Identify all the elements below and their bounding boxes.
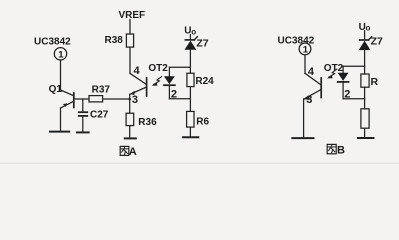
svg-text:B: B bbox=[337, 145, 345, 157]
wire pin1 down to OT2 pin4 bbox=[304, 55, 306, 73]
capacitor C27 bbox=[79, 99, 109, 132]
svg-text:R38: R38 bbox=[105, 35, 124, 46]
ground (R6) bbox=[183, 136, 198, 138]
OT2 label bbox=[324, 63, 344, 74]
output label Uo bbox=[359, 22, 371, 33]
svg-text:VREF: VREF bbox=[119, 10, 146, 21]
pin 4 label bbox=[134, 65, 141, 77]
wire R24 to R6 bbox=[189, 87, 191, 112]
optocoupler OT2 phototransistor bbox=[130, 73, 147, 99]
wire Z7 to R bbox=[364, 50, 366, 74]
light arrow bbox=[327, 69, 337, 78]
OT2 label bbox=[148, 63, 168, 74]
optocoupler OT2 LED bbox=[164, 67, 175, 99]
transistor Q1 bbox=[61, 90, 74, 108]
wire LED anode to Z7 node bbox=[169, 66, 190, 68]
node junction bbox=[128, 98, 131, 101]
figure label B bbox=[327, 144, 345, 156]
svg-text:Z7: Z7 bbox=[196, 37, 208, 49]
zener diode Z7 bbox=[185, 35, 209, 50]
svg-text:OT2: OT2 bbox=[324, 63, 344, 74]
scan artifact band bbox=[0, 163, 399, 164]
resistor R38 bbox=[105, 34, 134, 47]
wire LED anode to Z7 node bbox=[343, 65, 365, 67]
label VREF bbox=[119, 10, 146, 21]
wire VREF to R38 bbox=[129, 20, 131, 35]
pin 1 circle bbox=[54, 48, 66, 61]
svg-text:Z7: Z7 bbox=[371, 36, 383, 48]
resistor R bbox=[361, 74, 379, 88]
ground (R36) bbox=[125, 137, 136, 139]
wire LED cathode to R24/R6 node bbox=[169, 98, 190, 100]
wire R36 node down bbox=[129, 99, 131, 113]
svg-text:o: o bbox=[366, 24, 371, 33]
wire Q1 base to R37 bbox=[75, 98, 89, 100]
svg-text:UC3842: UC3842 bbox=[34, 36, 71, 47]
svg-text:A: A bbox=[129, 146, 137, 158]
svg-text:o: o bbox=[191, 27, 196, 36]
wire pin1 to Q1 collector bbox=[60, 60, 62, 90]
resistor R37 bbox=[89, 85, 110, 102]
resistor (unlabeled) bbox=[361, 109, 369, 128]
IC label UC3842 bbox=[34, 36, 71, 47]
pin 4 label bbox=[308, 66, 315, 78]
ground (C27) bbox=[77, 131, 89, 133]
wire R38 to OT2 pin4 bbox=[129, 47, 131, 73]
optocoupler OT2 LED bbox=[338, 66, 349, 99]
svg-text:1: 1 bbox=[58, 50, 64, 61]
wire to ground bbox=[364, 128, 366, 138]
IC label UC3842 bbox=[278, 35, 315, 46]
wire R to lower resistor bbox=[364, 87, 366, 109]
svg-text:R36: R36 bbox=[138, 117, 157, 128]
svg-text:R37: R37 bbox=[92, 85, 111, 96]
wire LED cathode to R node bbox=[343, 98, 365, 100]
resistor R6 bbox=[187, 111, 210, 127]
resistor R24 bbox=[187, 73, 214, 87]
figure label A bbox=[120, 146, 137, 158]
svg-text:R24: R24 bbox=[195, 76, 214, 87]
ground (lower resistor) bbox=[358, 137, 374, 139]
pin 3 label bbox=[306, 94, 312, 106]
wire Q1 emitter down bbox=[60, 108, 62, 131]
svg-text:OT2: OT2 bbox=[148, 63, 168, 74]
transistor Q1 label bbox=[49, 84, 63, 95]
svg-text:1: 1 bbox=[303, 45, 309, 56]
pin 1 circle bbox=[299, 43, 311, 56]
wire R6 to ground bbox=[189, 127, 191, 137]
svg-text:3: 3 bbox=[306, 94, 312, 106]
svg-text:R6: R6 bbox=[196, 117, 209, 128]
resistor R36 bbox=[126, 113, 157, 128]
pin 3 label bbox=[132, 94, 138, 106]
zener diode Z7 bbox=[359, 31, 383, 50]
pin 2 label bbox=[344, 88, 350, 100]
svg-text:R: R bbox=[371, 76, 379, 88]
optocoupler OT2 phototransistor bbox=[304, 73, 322, 138]
svg-text:C27: C27 bbox=[90, 110, 109, 121]
wire R37 to node bbox=[103, 98, 130, 100]
svg-text:4: 4 bbox=[134, 65, 141, 77]
svg-text:3: 3 bbox=[132, 94, 138, 106]
output label Uo bbox=[184, 26, 196, 37]
pin 2 label bbox=[171, 88, 177, 100]
ground (Q1 emitter) bbox=[50, 131, 69, 133]
wire Z7 to R24 bbox=[189, 50, 191, 73]
ground (pin 3) bbox=[292, 137, 313, 139]
wire R36 to ground bbox=[129, 126, 131, 139]
light arrow bbox=[152, 77, 162, 86]
